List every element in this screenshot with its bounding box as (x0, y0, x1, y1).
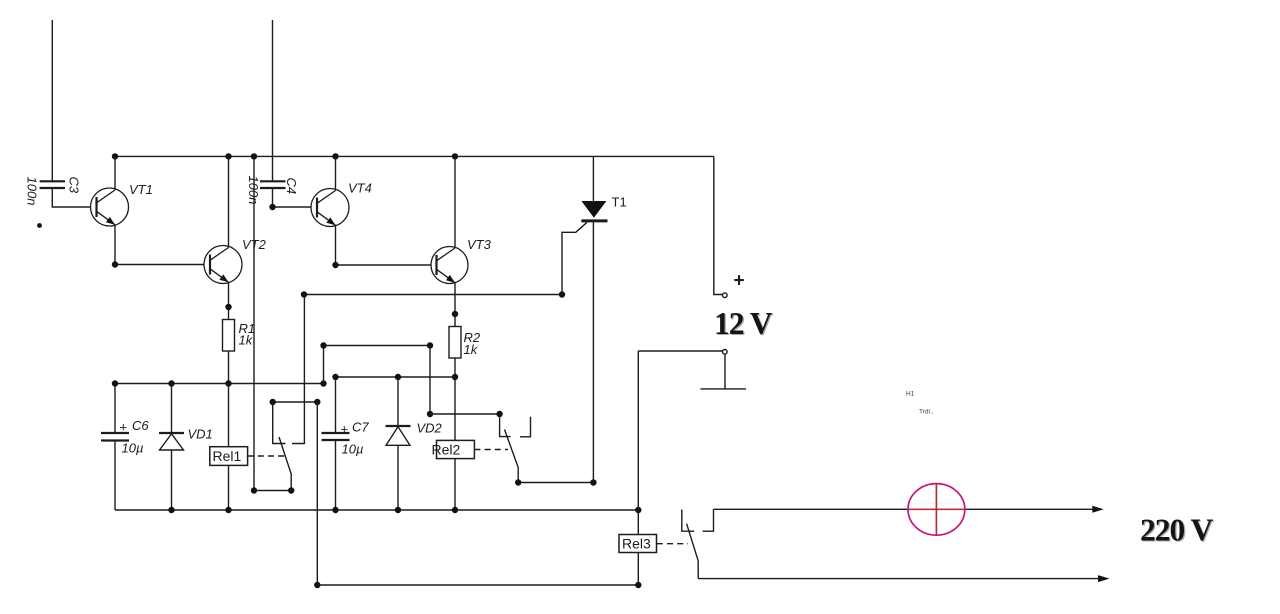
node Rel1 common top right (314, 399, 320, 405)
wire VT1 emitter to VT2 base (115, 225, 204, 265)
Rel2 fixed contact left (500, 414, 511, 437)
dashed link Rel1 (248, 455, 285, 457)
svg-text:VD1: VD1 (188, 427, 213, 442)
svg-text:10µ: 10µ (122, 441, 144, 456)
Rel2 switch blade (505, 430, 519, 483)
svg-text:220 V: 220 V (1140, 513, 1214, 548)
wire T1 gate (562, 222, 587, 294)
svg-text:Trdl..: Trdl.. (919, 409, 934, 416)
wire Rel1 common down long (316, 402, 318, 585)
node Rel2 switch contact top (496, 411, 502, 417)
relay coil Rel2 lead bottom (454, 459, 456, 510)
node bottom bus VD2 (395, 507, 401, 513)
node VT4 emitter corner (332, 262, 338, 268)
transistor VT3 (431, 247, 468, 284)
wire C4 input vertical (272, 20, 274, 181)
svg-text:C6: C6 (132, 418, 149, 433)
svg-text:VT3: VT3 (467, 237, 492, 252)
wire VT4 emitter to VT3 base (336, 225, 432, 265)
wire top supply rail (115, 155, 714, 157)
relay coil Rel3 box (619, 535, 657, 553)
capacitor C7 (322, 433, 350, 440)
node rail-VT1 collector (112, 153, 118, 159)
wire 220V line lower (698, 578, 1099, 580)
diode VD1 lead bottom (171, 450, 173, 510)
node rail-VT2 collector (225, 153, 231, 159)
ground bar (700, 388, 746, 390)
svg-text:H1: H1 (906, 391, 915, 398)
wire minus terminal horizontal (638, 350, 722, 352)
wire R2 to Rel2 coil (454, 358, 456, 440)
svg-text:C7: C7 (352, 420, 369, 435)
capacitor C6 lead bottom (114, 441, 116, 511)
diode VD2 lead bottom (397, 445, 399, 510)
wire Rel1 switch common top (273, 401, 318, 403)
wire link to Rel2 contact upper (324, 345, 431, 347)
capacitor C6 (101, 433, 129, 441)
wire C4 to VT4 base (273, 188, 312, 207)
svg-text:10µ: 10µ (342, 442, 364, 457)
diode VD2 (386, 426, 411, 445)
node C4 base corner (269, 204, 275, 210)
node bottom link right (635, 582, 641, 588)
wire C7 node horizontal (336, 376, 456, 378)
svg-text:T1: T1 (612, 195, 627, 210)
node on VT3 emitter wire (452, 311, 458, 317)
node bottom bus C7 (332, 507, 338, 513)
capacitor C6 lead top (114, 384, 116, 434)
relay coil Rel1 box (210, 447, 248, 466)
capacitor C7 lead bottom (335, 440, 337, 510)
arrow 220V lower (1098, 575, 1110, 582)
node cross link left (301, 291, 307, 297)
lamp cross vertical (935, 484, 937, 536)
node bottom bus Rel1 coil (225, 507, 231, 513)
capacitor C7 lead top (335, 377, 337, 433)
node cross link right (559, 291, 565, 297)
diode VD1 (159, 433, 184, 450)
arrow 220V upper (1092, 506, 1104, 513)
terminal minus circle (723, 350, 728, 355)
node bottom bus VD1 (168, 507, 174, 513)
capacitor C4 (260, 181, 286, 188)
relay coil Rel1 lead bottom (228, 465, 230, 510)
wire VT3 collector (454, 156, 456, 248)
resistor R2 (449, 327, 461, 359)
thyristor T1 triangle (581, 201, 606, 218)
node bottom link left (314, 582, 320, 588)
wire VT4 collector (335, 156, 337, 190)
wire plus terminal drop (714, 156, 723, 294)
node bottom bus Rel2 coil (452, 507, 458, 513)
lamp circle (908, 484, 965, 536)
Rel1 fixed contact left (273, 402, 286, 444)
svg-text:+: + (120, 420, 128, 435)
svg-text:VD2: VD2 (417, 421, 443, 436)
svg-text:12 V: 12 V (714, 306, 773, 341)
wire VT2 collector (228, 156, 230, 247)
dashed link Rel2 (474, 449, 508, 451)
node bus right corner (320, 380, 326, 386)
dashed link Rel3 (657, 543, 688, 545)
relay coil Rel1 lead top (228, 384, 230, 447)
svg-text:Rel2: Rel2 (432, 442, 461, 458)
thyristor T1 cathode bar (581, 219, 607, 222)
node VT1 emitter corner (112, 261, 118, 267)
node R2-C7 wire junction (452, 374, 458, 380)
wire C3 to VT1 base (52, 188, 90, 207)
node VD2 top (395, 374, 401, 380)
wire minus vertical long (637, 351, 639, 585)
wire ground lead (724, 354, 726, 389)
transistor VT2 (204, 246, 242, 284)
wire VT1 collector (114, 156, 116, 190)
Rel1 switch blade (279, 437, 291, 491)
wire bottom link left (317, 584, 638, 586)
wire Rel2 blade bottom (518, 482, 593, 484)
node link drop corner (427, 411, 433, 417)
node VT2 emitter (225, 304, 231, 310)
node rail-Rel1 switch drop (251, 153, 257, 159)
node link corner (427, 342, 433, 348)
wire VT2 emitter (228, 282, 230, 319)
node rail-VT4 collector (332, 153, 338, 159)
wire bus corner riser (323, 346, 325, 384)
diode VD1 lead top (171, 384, 173, 434)
node Rel2 blade bottom left (515, 479, 521, 485)
relay coil Rel2 box (437, 440, 475, 458)
node bus-VD1 (168, 380, 174, 386)
node Rel1 contact top left (270, 399, 276, 405)
wire 220V line upper (714, 508, 1094, 510)
svg-text:VT1: VT1 (129, 182, 153, 197)
transistor VT1 (91, 188, 129, 226)
transistor VT4 (311, 189, 349, 227)
node Rel2 blade bottom right (590, 479, 596, 485)
node rail-VT3 collector (452, 153, 458, 159)
node Rel1 blade bottom right (288, 487, 294, 493)
terminal plus circle (723, 293, 728, 298)
node bus-C6 (112, 380, 118, 386)
Rel3 fixed contact right (703, 509, 714, 531)
Rel3 switch blade (687, 524, 699, 579)
node bottom bus right end (635, 507, 641, 513)
wire Rel1 blade bottom (254, 490, 291, 492)
node C7 top (332, 374, 338, 380)
wire T1 cathode down (592, 222, 594, 482)
svg-text:Rel1: Rel1 (213, 448, 242, 464)
diode VD2 lead top (397, 377, 399, 426)
wire bottom bus (115, 509, 638, 511)
wire bus upper left (115, 383, 324, 385)
wire emitter follower cross link (304, 294, 562, 296)
svg-text:+: + (341, 422, 349, 437)
node stray dot (37, 223, 42, 228)
svg-text:1k: 1k (464, 342, 479, 357)
svg-text:1k: 1k (239, 333, 254, 348)
wire R1 to bus (228, 351, 230, 384)
svg-text:100n: 100n (25, 177, 40, 206)
svg-text:+: + (734, 271, 745, 292)
node Rel1 blade bottom left (251, 487, 257, 493)
capacitor C3 (40, 181, 65, 188)
wire link drop (429, 346, 431, 415)
node riser top corner (320, 342, 326, 348)
lamp cross horizontal (908, 508, 965, 510)
wire Rel1 switch drop from rail (253, 156, 255, 490)
node bus-Rel1 coil (225, 380, 231, 386)
svg-text:Rel3: Rel3 (622, 536, 651, 552)
wire T1 anode from rail (592, 156, 594, 201)
Rel3 fixed contact left (682, 510, 694, 532)
resistor R1 (223, 320, 235, 352)
wire C3 input vertical (51, 20, 53, 181)
wire link to Rel2 switch (430, 413, 500, 415)
svg-text:C3: C3 (67, 177, 82, 194)
wire VT3 emitter to R2 (454, 283, 456, 327)
svg-text:VT4: VT4 (348, 181, 372, 196)
Rel2 fixed contact right (520, 417, 531, 437)
svg-text:C4: C4 (284, 178, 299, 195)
Rel1 fixed contact right (292, 295, 304, 444)
